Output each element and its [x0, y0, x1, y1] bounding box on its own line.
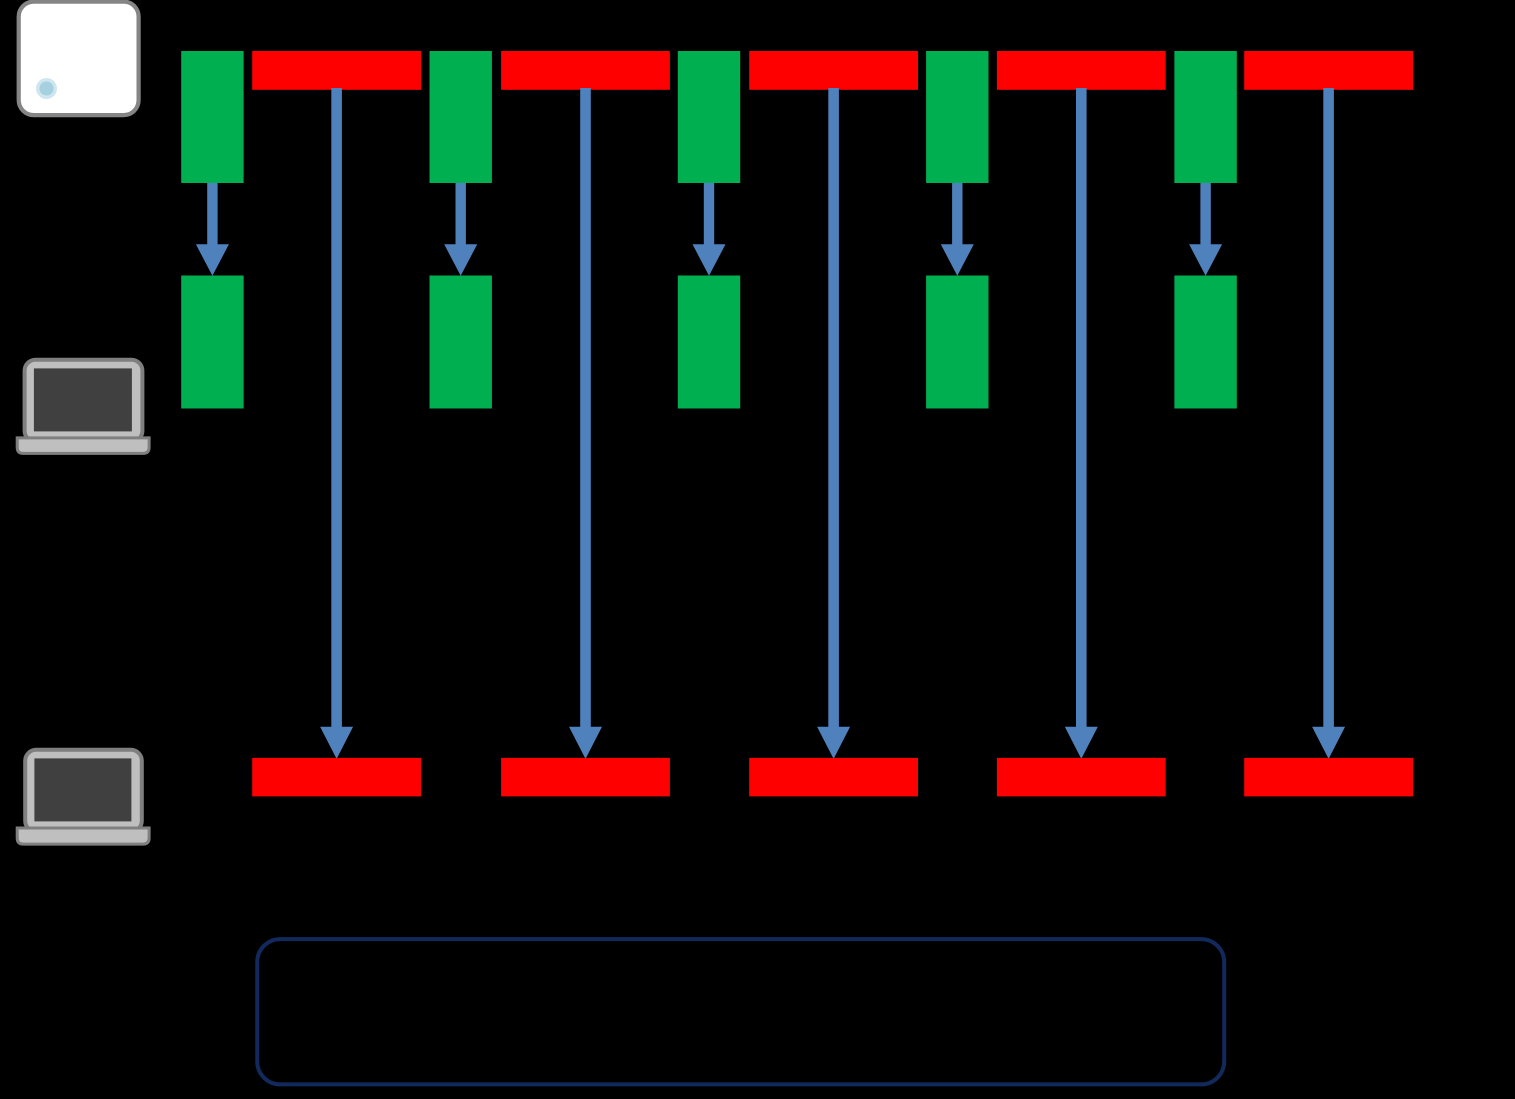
short arrow 1: [196, 183, 229, 276]
green segment 1 top: [181, 51, 243, 183]
red bar 5 top: [1244, 51, 1413, 90]
red bar 3 bottom: [749, 758, 918, 797]
green segment 2 top: [430, 51, 492, 183]
red bar 2 bottom: [501, 758, 670, 797]
green segment 3 bottom: [678, 276, 740, 409]
red bar 1 top: [252, 51, 421, 90]
short arrow 3: [693, 183, 726, 276]
laptop icon 1 (client): [17, 360, 149, 454]
red bar 5 bottom: [1244, 758, 1413, 797]
long arrow 3: [817, 88, 850, 759]
webcam icon (white rounded square with lens dot): [19, 2, 139, 116]
short arrow 5: [1189, 183, 1222, 276]
green segment 4 bottom: [926, 276, 988, 409]
green segment 4 top: [926, 51, 988, 183]
laptop icon 2 (client): [17, 750, 149, 844]
red bar 2 top: [501, 51, 670, 90]
green segment 2 bottom: [430, 276, 492, 409]
short arrow 4: [941, 183, 974, 276]
red bar 1 bottom: [252, 758, 421, 797]
green segment 5 top: [1174, 51, 1236, 183]
long arrow 2: [569, 88, 602, 759]
long arrow 5: [1312, 88, 1345, 759]
caption rounded rectangle: [257, 939, 1224, 1084]
green segment 3 top: [678, 51, 740, 183]
long arrow 1: [320, 88, 353, 759]
green segment 1 bottom: [181, 276, 243, 409]
short arrow 2: [444, 183, 477, 276]
long arrow 4: [1065, 88, 1098, 759]
green segment 5 bottom: [1174, 276, 1236, 409]
red bar 4 bottom: [997, 758, 1166, 797]
red bar 3 top: [749, 51, 918, 90]
red bar 4 top: [997, 51, 1166, 90]
